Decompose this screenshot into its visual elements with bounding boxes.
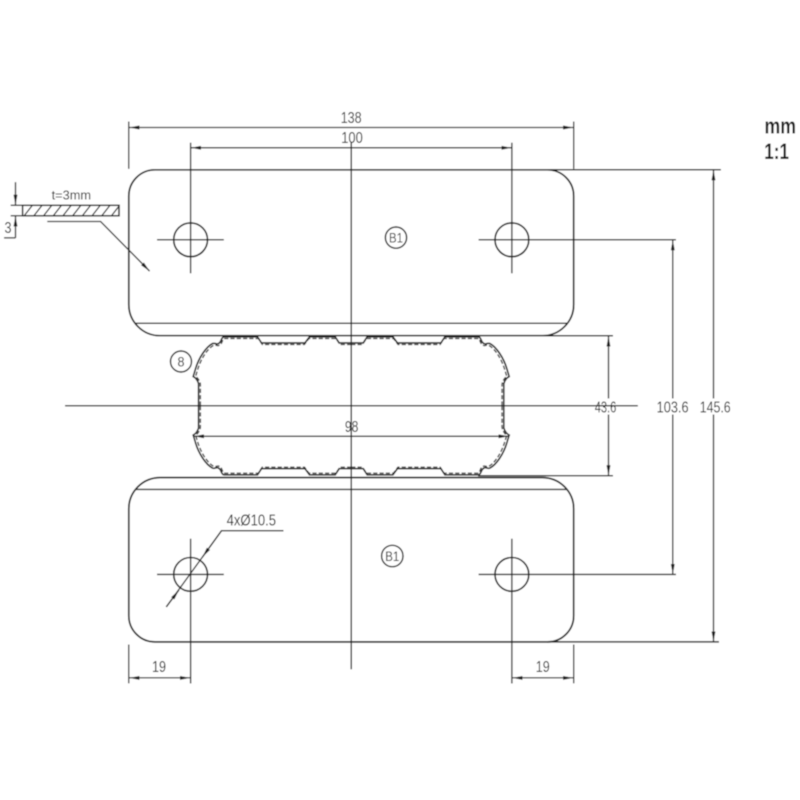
vertical center line	[350, 143, 352, 670]
bottom plate bend line	[136, 488, 567, 490]
top plate outline	[129, 170, 574, 336]
top-left hole centerlines	[157, 239, 224, 241]
label B1 bottom	[382, 545, 403, 566]
svg-text:19: 19	[536, 659, 550, 676]
bottom-left hole centerlines	[157, 573, 224, 575]
svg-text:138: 138	[341, 110, 362, 127]
label B1 top	[385, 227, 406, 248]
svg-text:mm: mm	[765, 114, 797, 139]
svg-text:B1: B1	[389, 230, 403, 245]
svg-text:103.6: 103.6	[657, 400, 689, 417]
profile quarter top-left	[193, 337, 351, 406]
svg-text:1:1: 1:1	[764, 139, 789, 164]
svg-text:t=3mm: t=3mm	[52, 188, 91, 203]
top-right hole centerlines	[479, 239, 676, 241]
svg-text:145.6: 145.6	[700, 400, 731, 417]
svg-text:43.6: 43.6	[595, 400, 617, 417]
extension line profile top	[542, 335, 613, 337]
svg-text:98: 98	[345, 419, 359, 436]
top plate hole left	[174, 223, 208, 257]
bottom plate outline	[129, 478, 574, 642]
profile quarter bottom-right	[351, 406, 509, 475]
extension line plate bottom edge	[547, 641, 719, 643]
svg-text:8: 8	[178, 354, 185, 369]
svg-text:B1: B1	[385, 549, 399, 564]
dimension 145.6	[700, 170, 731, 641]
svg-text:19: 19	[152, 659, 166, 676]
extension line profile bottom	[478, 475, 613, 477]
dimension 103.6	[657, 240, 689, 574]
extension line plate top edge	[547, 169, 721, 171]
bottom plate hole right	[495, 558, 529, 592]
leader from section to plate	[47, 222, 149, 272]
horizontal center line	[65, 405, 638, 407]
dimension 43.6	[595, 336, 617, 475]
label 8 balloon	[171, 351, 192, 372]
top plate bend line	[136, 322, 567, 324]
svg-text:3: 3	[5, 220, 12, 237]
top plate hole right	[495, 223, 529, 257]
svg-text:4xØ10.5: 4xØ10.5	[227, 512, 277, 529]
section hatch plate	[23, 205, 119, 216]
profile quarter bottom-left	[193, 406, 351, 475]
dimension 3 (thickness)	[4, 182, 23, 238]
profile quarter top-right	[351, 337, 509, 406]
svg-text:100: 100	[341, 130, 363, 147]
bottom plate hole left	[174, 558, 208, 592]
bottom-right hole centerlines	[479, 573, 676, 575]
